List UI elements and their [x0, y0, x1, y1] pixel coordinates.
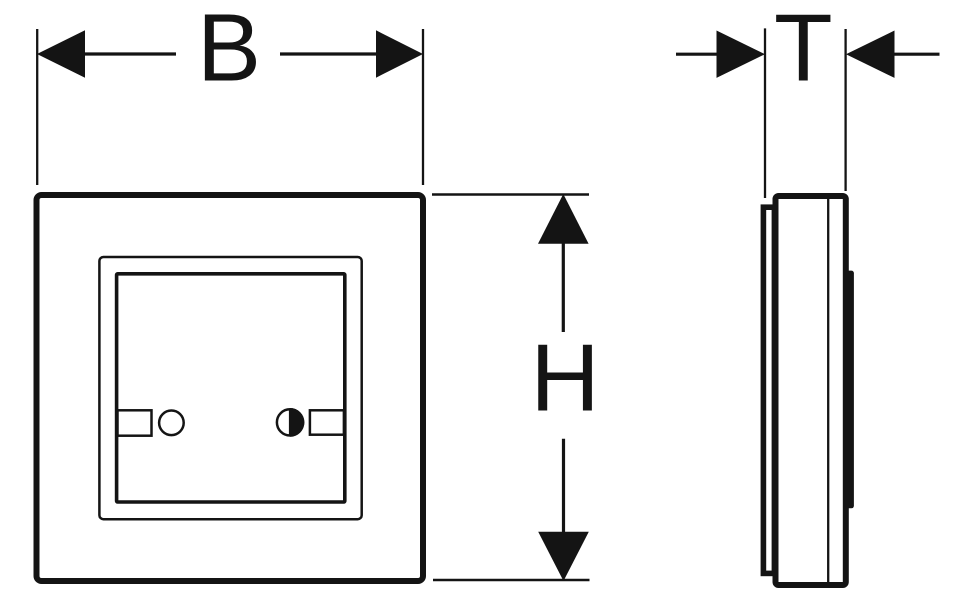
right circle (half filled) — [277, 408, 305, 437]
svg-text:B: B — [197, 0, 261, 102]
dimension T: right arrow — [846, 31, 940, 78]
side view right protrusion — [846, 271, 854, 509]
left circle (open) — [159, 411, 184, 436]
dimension T: right extension line — [844, 29, 846, 191]
dimension B: right arrow — [280, 30, 423, 77]
dimension H: bottom arrow — [538, 439, 589, 581]
right socket rectangle — [310, 410, 344, 434]
dimension B: left extension line — [36, 29, 38, 185]
dimension T: left arrow — [676, 31, 765, 78]
side view mounting flange — [763, 207, 774, 573]
front view inner frame outer line — [99, 257, 361, 519]
dimension H: top arrow — [538, 194, 589, 332]
side view main body — [776, 196, 846, 585]
side view inner vertical line — [827, 199, 829, 582]
front view inner frame inner line — [117, 274, 345, 502]
dimension B: left arrow — [37, 30, 176, 77]
dimension H: bottom extension line — [433, 579, 590, 582]
front view outer frame — [37, 195, 424, 581]
left socket rectangle — [118, 410, 152, 435]
dimension T: left extension line — [764, 28, 766, 198]
dimension B: right extension line — [422, 29, 424, 185]
dimension H: top extension line — [432, 193, 589, 196]
svg-text:H: H — [530, 325, 599, 432]
svg-text:T: T — [774, 0, 833, 102]
